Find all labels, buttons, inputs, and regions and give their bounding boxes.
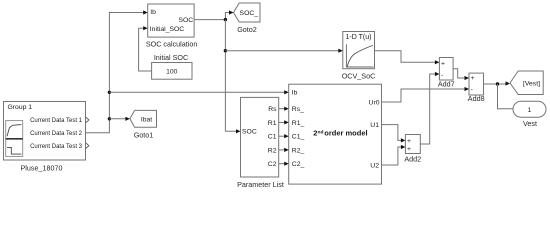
- svg-text:U1: U1: [370, 122, 379, 129]
- svg-text:Add7: Add7: [438, 80, 455, 89]
- svg-text:C1_: C1_: [292, 134, 305, 141]
- svg-text:+: +: [407, 138, 411, 145]
- svg-text:Goto1: Goto1: [134, 131, 154, 140]
- svg-text:100: 100: [166, 69, 178, 76]
- svg-text:Initial_SOC: Initial_SOC: [150, 26, 184, 33]
- svg-text:Rs_: Rs_: [292, 106, 304, 113]
- svg-text:U2: U2: [370, 162, 379, 169]
- svg-text:SOC_: SOC_: [240, 10, 259, 17]
- svg-text:C1: C1: [268, 134, 277, 141]
- svg-text:Group 1: Group 1: [8, 104, 33, 111]
- svg-text:Parameter List: Parameter List: [237, 180, 284, 189]
- svg-text:Vest: Vest: [523, 119, 537, 128]
- svg-text:Ib: Ib: [292, 90, 298, 97]
- svg-text:SOC calculation: SOC calculation: [146, 39, 198, 48]
- svg-text:Initial SOC: Initial SOC: [154, 53, 188, 62]
- svg-text:[Vest]: [Vest]: [523, 81, 540, 88]
- svg-text:R2_: R2_: [292, 147, 305, 154]
- svg-text:Ibat: Ibat: [141, 116, 152, 123]
- svg-text:1: 1: [528, 107, 532, 114]
- svg-text:R1: R1: [268, 120, 277, 127]
- svg-text:+: +: [407, 146, 411, 153]
- svg-text:R2: R2: [268, 147, 277, 154]
- svg-text:Current Data Test 3: Current Data Test 3: [30, 144, 83, 150]
- svg-text:Current Data Test 2: Current Data Test 2: [30, 131, 83, 137]
- svg-text:OCV_SoC: OCV_SoC: [342, 72, 376, 81]
- svg-text:Ur0: Ur0: [369, 99, 380, 106]
- svg-text:Goto2: Goto2: [237, 25, 257, 34]
- svg-text:SOC: SOC: [178, 17, 193, 24]
- svg-text:SOC: SOC: [242, 129, 257, 136]
- svg-text:C2: C2: [268, 161, 277, 168]
- svg-text:+: +: [471, 75, 475, 82]
- svg-text:+: +: [441, 61, 445, 68]
- svg-text:1-D T(u): 1-D T(u): [346, 34, 372, 41]
- svg-text:Pluse_18070: Pluse_18070: [21, 163, 63, 172]
- svg-text:R1_: R1_: [292, 120, 305, 127]
- svg-text:Ib: Ib: [150, 9, 156, 16]
- svg-text:-: -: [471, 86, 473, 93]
- svg-text:C2_: C2_: [292, 161, 305, 168]
- svg-text:Rs: Rs: [268, 106, 277, 113]
- svg-text:-: -: [441, 73, 443, 80]
- svg-text:Add8: Add8: [468, 94, 485, 103]
- svg-text:Add2: Add2: [404, 155, 421, 164]
- svg-text:Current Data Test 1: Current Data Test 1: [30, 118, 83, 124]
